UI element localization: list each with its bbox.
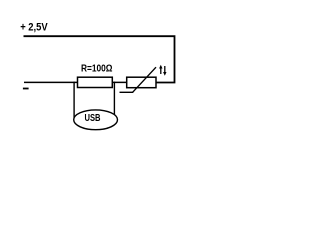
resistor R body — [78, 77, 113, 87]
svg-text:USB: USB — [85, 112, 101, 124]
trimmer adjustment diagonal — [133, 67, 156, 92]
svg-text:+ 2,5V: + 2,5V — [20, 22, 48, 34]
trimmer adjustment T-bar — [120, 91, 134, 93]
trimmer resistor body — [127, 77, 156, 88]
svg-text:R=100Ω: R=100Ω — [81, 63, 113, 75]
wire main horizontal — [24, 81, 127, 83]
wire left USB leg — [73, 82, 75, 120]
label minus terminal — [23, 88, 29, 90]
arrow up — [160, 68, 162, 75]
wire right USB leg — [113, 82, 115, 117]
wire top rail and right vertical drop — [24, 36, 175, 82]
USB connector ellipse — [74, 110, 118, 130]
arrow down — [164, 66, 166, 73]
